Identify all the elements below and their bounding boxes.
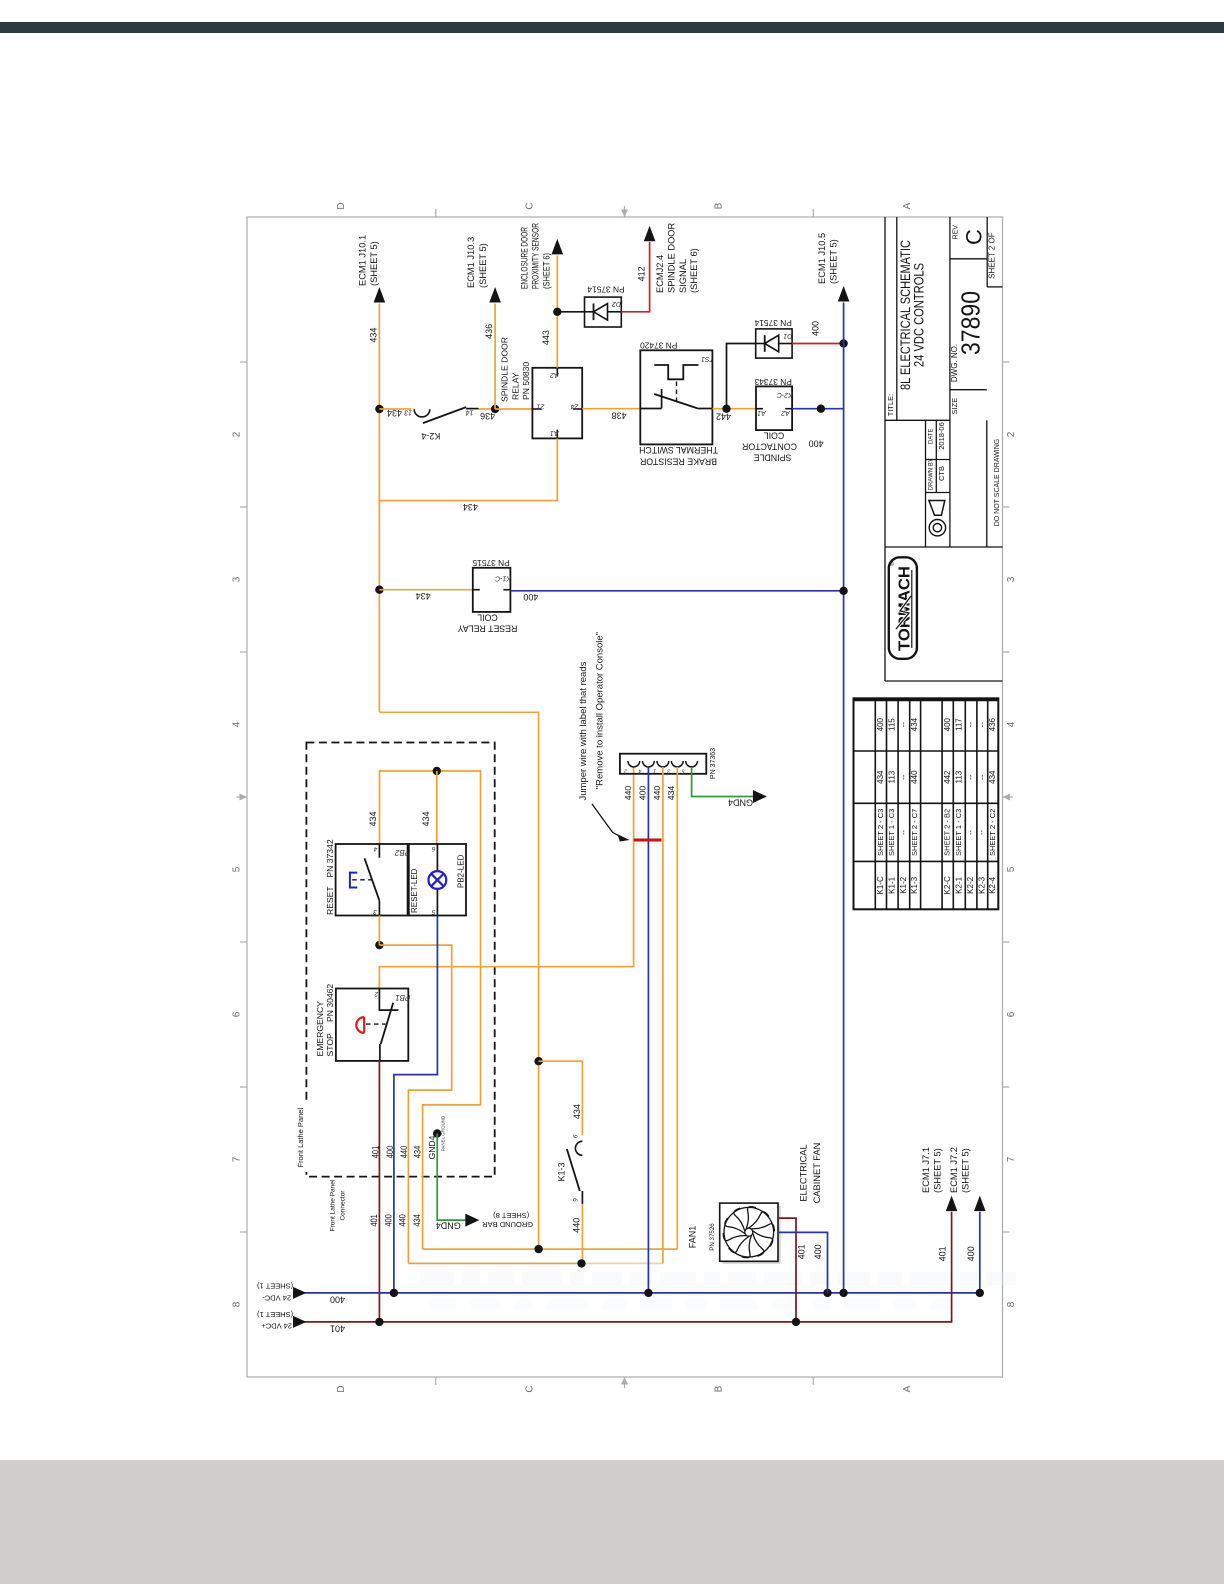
svg-text:400: 400: [638, 786, 648, 801]
off-sheet arrow ECM1 J10.1: [374, 287, 386, 303]
svg-text:(SHEET 5): (SHEET 5): [478, 243, 488, 288]
title block border: [885, 217, 1003, 681]
svg-text:C: C: [525, 202, 536, 209]
svg-text:400: 400: [943, 717, 952, 731]
svg-text:SHEET 2 - C2: SHEET 2 - C2: [988, 809, 997, 856]
node junction 440 reset pin3: [375, 941, 383, 949]
jumper wire red: [634, 839, 662, 842]
svg-text:4: 4: [638, 768, 641, 774]
svg-text:115: 115: [887, 718, 896, 731]
svg-text:SHEET 1 - C3: SHEET 1 - C3: [954, 809, 963, 856]
svg-text:K2-4: K2-4: [988, 876, 997, 893]
svg-text:(SHEET 8): (SHEET 8): [493, 1211, 530, 1220]
wire 436 to relay pin 21: [495, 408, 532, 410]
svg-text:--: --: [899, 829, 908, 834]
svg-text:440: 440: [398, 1214, 408, 1227]
svg-text:434: 434: [572, 1104, 582, 1119]
svg-text:SPINDLE: SPINDLE: [754, 452, 792, 462]
svg-text:440: 440: [572, 1218, 582, 1233]
svg-text:TORMACH: TORMACH: [897, 566, 914, 651]
svg-text:434: 434: [988, 770, 997, 784]
node junction 401 fan: [792, 1318, 800, 1326]
node junction 400/D1: [839, 339, 847, 347]
svg-text:SHEET 1 - C3: SHEET 1 - C3: [887, 809, 896, 856]
svg-text:ECM1 J10.3: ECM1 J10.3: [466, 237, 476, 288]
frame center marks: [624, 206, 626, 217]
svg-text:436: 436: [480, 411, 495, 421]
svg-text:Jumper wire with label that re: Jumper wire with label that reads: [578, 661, 589, 800]
svg-text:434: 434: [910, 717, 919, 731]
svg-text:SHEET 2 - C7: SHEET 2 - C7: [910, 809, 919, 856]
svg-text:C: C: [525, 1385, 536, 1392]
wire 443 vertical: [556, 256, 558, 368]
projection symbol: [929, 501, 945, 516]
svg-text:D2: D2: [612, 300, 621, 307]
jumper callout leader: [592, 804, 624, 838]
svg-text:A: A: [902, 202, 913, 209]
svg-text:37890: 37890: [955, 291, 985, 355]
svg-text:--: --: [966, 829, 975, 834]
svg-text:(SHEET 1): (SHEET 1): [257, 1282, 294, 1291]
TS1 switch blade: [654, 394, 697, 408]
wire 401 fan: [778, 1218, 796, 1322]
node junction 443/D2: [553, 308, 561, 316]
svg-text:440: 440: [623, 786, 633, 801]
svg-text:"Remove to install Operator Co: "Remove to install Operator Console": [595, 632, 606, 789]
svg-text:DATE: DATE: [929, 429, 935, 445]
svg-text:ELECTRICAL: ELECTRICAL: [799, 1144, 809, 1201]
svg-text:PB2-LED: PB2-LED: [457, 854, 466, 888]
pushbutton EMERGENCY STOP PB1 box: [336, 989, 408, 1061]
svg-text:436: 436: [988, 717, 997, 731]
svg-text:401: 401: [938, 1246, 948, 1261]
svg-text:1: 1: [653, 768, 656, 774]
node junction 400 horizontal: [817, 405, 825, 413]
svg-text:--: --: [977, 722, 986, 728]
svg-text:D: D: [336, 1385, 347, 1392]
svg-text:434: 434: [416, 591, 431, 601]
svg-text:434: 434: [463, 502, 478, 512]
svg-text:6: 6: [232, 1011, 243, 1017]
wire 434 to K1-3: [539, 1061, 583, 1135]
svg-text:SPINDLE DOOR: SPINDLE DOOR: [500, 337, 510, 402]
off-sheet arrow ECM1 J7.1: [946, 1196, 958, 1212]
svg-text:3: 3: [666, 768, 670, 774]
svg-text:K1-C: K1-C: [876, 876, 885, 894]
svg-text:400: 400: [809, 439, 824, 449]
diode D1 box: [756, 329, 792, 358]
svg-text:412: 412: [636, 266, 646, 281]
svg-text:ECMJ2.4: ECMJ2.4: [655, 255, 665, 293]
svg-text:K2-3: K2-3: [977, 876, 986, 893]
svg-text:CABINET FAN: CABINET FAN: [812, 1143, 822, 1204]
wire 434 into panel: [380, 771, 481, 1249]
svg-text:434: 434: [369, 328, 379, 343]
svg-text:--: --: [899, 722, 908, 728]
reset actuator symbol: [350, 873, 357, 888]
svg-text:9: 9: [573, 1198, 580, 1202]
TS1 heater element: [654, 365, 698, 379]
wire GND4 panel green: [437, 1134, 466, 1221]
svg-text:434: 434: [876, 770, 885, 784]
svg-text:21: 21: [537, 402, 546, 409]
svg-text:CTB: CTB: [937, 466, 946, 481]
contact K2-4: [414, 409, 430, 417]
svg-text:400: 400: [813, 1244, 823, 1259]
wire A1 to 434: [379, 438, 557, 500]
svg-text:401: 401: [371, 1146, 381, 1159]
svg-text:Front Lathe Panel: Front Lathe Panel: [329, 1179, 336, 1231]
svg-text:ECM1 J10.1: ECM1 J10.1: [357, 235, 367, 286]
svg-text:6: 6: [573, 1134, 580, 1138]
svg-text:A1: A1: [757, 409, 767, 416]
svg-text:EMERGENCY: EMERGENCY: [315, 1001, 325, 1057]
panel ground node GND4: [433, 1129, 441, 1137]
wire 440 pale segment: [582, 1262, 663, 1264]
svg-text:PN 37342: PN 37342: [325, 839, 335, 877]
node junction 436: [491, 405, 499, 413]
svg-text:(SHEET 5): (SHEET 5): [961, 1148, 971, 1193]
relay K2 spindle door relay box: [532, 368, 582, 439]
contact K1-3: [575, 1141, 582, 1155]
svg-text:COIL: COIL: [477, 613, 498, 623]
svg-text:PN 37526: PN 37526: [709, 1223, 716, 1251]
wire 400 reset relay to bus: [510, 590, 843, 592]
svg-text:PN 37420: PN 37420: [640, 341, 678, 351]
off-sheet arrow 24VDC+ (points right): [293, 1316, 306, 1328]
svg-text:(SHEET 6): (SHEET 6): [689, 248, 699, 293]
svg-text:3: 3: [1006, 576, 1017, 582]
svg-text:K2-2: K2-2: [966, 876, 975, 893]
svg-text:2: 2: [624, 768, 628, 774]
thermal switch TS1 box: [640, 350, 712, 444]
svg-text:440: 440: [652, 786, 662, 801]
svg-text:400: 400: [384, 1214, 394, 1227]
wire K1-3 down: [581, 1204, 583, 1264]
svg-text:--: --: [899, 774, 908, 780]
svg-text:RESET-LED: RESET-LED: [410, 868, 419, 913]
svg-text:434: 434: [666, 786, 676, 801]
svg-text:7: 7: [232, 1156, 243, 1162]
frame zone ticks: [435, 209, 437, 217]
estop mushroom symbol: [363, 1017, 365, 1033]
svg-text:(SHEET 1): (SHEET 1): [257, 1310, 294, 1319]
svg-text:24: 24: [571, 402, 580, 409]
svg-text:443: 443: [541, 330, 551, 345]
svg-text:PB1: PB1: [395, 993, 410, 1002]
svg-text:400: 400: [330, 1294, 345, 1304]
svg-text:5: 5: [1006, 866, 1017, 872]
svg-text:3: 3: [232, 576, 243, 582]
svg-text:D1: D1: [783, 332, 792, 339]
svg-text:2018-06: 2018-06: [937, 422, 946, 450]
svg-text:(SHEET 5): (SHEET 5): [933, 1148, 943, 1193]
svg-text:Front Lathe Panel: Front Lathe Panel: [296, 1108, 305, 1168]
wire 400 coil A2 to bus: [792, 408, 844, 410]
svg-text:K1-3: K1-3: [910, 876, 919, 893]
svg-text:A: A: [902, 1385, 913, 1392]
svg-text:DRAWN BY: DRAWN BY: [929, 458, 935, 490]
drawing border frame: [247, 217, 1003, 1377]
svg-text:434: 434: [421, 811, 431, 826]
svg-text:PN 50830: PN 50830: [521, 362, 531, 400]
svg-text:434: 434: [387, 408, 402, 418]
svg-text:117: 117: [954, 718, 963, 731]
svg-text:(SHEET 5): (SHEET 5): [369, 241, 379, 286]
wire 400 fan: [778, 1232, 828, 1293]
svg-text:PN 30462: PN 30462: [325, 984, 335, 1022]
svg-text:SHEET 2 - C3: SHEET 2 - C3: [876, 809, 885, 856]
svg-text:K1-3: K1-3: [557, 1162, 567, 1181]
reset relay coil K1 box: [473, 568, 511, 612]
svg-text:K1-1: K1-1: [887, 876, 896, 893]
off-sheet arrow ECMJ2.4 spindle door signal: [644, 226, 656, 242]
svg-text:400: 400: [385, 1146, 395, 1159]
svg-text:(SHEET 6): (SHEET 6): [541, 253, 551, 289]
svg-text:5: 5: [232, 866, 243, 872]
svg-text:RELAY: RELAY: [510, 372, 520, 400]
svg-text:5: 5: [431, 908, 435, 915]
front lathe panel dashed enclosure: [306, 743, 494, 1177]
svg-text:401: 401: [369, 1214, 379, 1227]
svg-text:C: C: [961, 229, 986, 245]
faint watermark strip: [420, 1272, 1016, 1285]
svg-text:3: 3: [373, 908, 377, 915]
wire 442 TS1 to contactor coil: [712, 408, 756, 410]
svg-text:24 VDC-: 24 VDC-: [262, 1294, 291, 1303]
svg-text:SHEET 2 OF: SHEET 2 OF: [988, 232, 997, 279]
wire 401 rail maroon: [296, 1212, 952, 1322]
wire 400 LED pin5 down: [394, 916, 438, 1293]
svg-text:PN 37515: PN 37515: [472, 558, 510, 568]
svg-text:THERMAL SWITCH: THERMAL SWITCH: [639, 445, 718, 455]
svg-text:DO NOT SCALE DRAWING: DO NOT SCALE DRAWING: [994, 439, 1001, 527]
svg-text:--: --: [966, 774, 975, 780]
wire 440 connector pin3: [662, 767, 664, 1264]
svg-text:14: 14: [466, 409, 474, 416]
svg-text:2: 2: [1006, 431, 1017, 437]
svg-text:440: 440: [910, 770, 919, 784]
off-sheet arrow ECM1 J10.5: [838, 286, 850, 302]
node junction 434 K1-3: [534, 1057, 542, 1065]
wire 412 red: [621, 242, 649, 312]
svg-text:6: 6: [1006, 1011, 1017, 1017]
svg-text:(SHEET 5): (SHEET 5): [829, 239, 839, 284]
svg-text:2: 2: [232, 431, 243, 437]
svg-text:5: 5: [681, 768, 685, 774]
svg-text:PN 37514: PN 37514: [754, 318, 792, 328]
wire 440 jog: [379, 945, 451, 1263]
svg-text:440: 440: [399, 1146, 409, 1159]
wire 400 connector pin2: [647, 767, 649, 1293]
svg-text:RESET: RESET: [325, 886, 335, 915]
indicator RESET-LED box: [409, 844, 466, 916]
svg-text:24 VDC CONTROLS: 24 VDC CONTROLS: [912, 263, 927, 367]
svg-text:400: 400: [523, 592, 538, 602]
svg-text:SIZE: SIZE: [950, 398, 959, 415]
node junction 434/K2-4: [375, 405, 383, 413]
wire reset pin3 down: [378, 916, 380, 946]
off-sheet arrow enclosure door proximity sensor: [552, 239, 564, 255]
node junction 434 bottom: [534, 1245, 542, 1253]
svg-text:ECM1 J7.1: ECM1 J7.1: [921, 1147, 931, 1193]
svg-text:A2: A2: [781, 409, 791, 416]
svg-text:438: 438: [612, 411, 627, 421]
svg-text:D: D: [336, 202, 347, 209]
connector PN 37363 box: [620, 754, 706, 774]
svg-text:K2-4: K2-4: [421, 431, 440, 441]
svg-text:RESET RELAY: RESET RELAY: [457, 624, 517, 634]
svg-text:400: 400: [966, 1246, 976, 1261]
svg-text:442: 442: [716, 412, 731, 422]
svg-text:PB2: PB2: [394, 848, 410, 857]
svg-text:BRAKE RESISTOR: BRAKE RESISTOR: [640, 457, 717, 467]
wire 434 to reset relay: [379, 589, 472, 591]
wire 400 bus vertical: [843, 303, 845, 1293]
svg-text:®: ®: [889, 561, 896, 566]
ground arrow GND4 connector: [753, 790, 767, 803]
fan FAN1 box: [723, 1206, 781, 1264]
wire 436 vertical: [494, 304, 496, 410]
svg-text:PN 37514: PN 37514: [587, 285, 625, 295]
node junction 401 estop: [375, 1318, 383, 1326]
svg-text:GND4: GND4: [728, 798, 753, 808]
svg-text:B: B: [714, 1385, 725, 1392]
wire 400 rail blue: [296, 1212, 980, 1293]
svg-text:A1: A1: [550, 429, 560, 436]
svg-text:PANEL GROUND: PANEL GROUND: [441, 1115, 446, 1151]
svg-text:TITLE:: TITLE:: [886, 394, 895, 417]
TORMACH logo: [889, 557, 917, 659]
svg-text:113: 113: [954, 770, 963, 783]
svg-text:442: 442: [943, 770, 952, 784]
svg-text:--: --: [977, 829, 986, 834]
svg-text:2: 2: [374, 990, 379, 997]
svg-text:K2-C: K2-C: [943, 876, 952, 894]
svg-text:STOP: STOP: [325, 1033, 335, 1057]
svg-text:GROUND BAR: GROUND BAR: [482, 1220, 533, 1229]
relay contact cross reference table: [854, 698, 999, 909]
svg-text:401: 401: [330, 1324, 345, 1334]
svg-text:B: B: [714, 202, 725, 209]
svg-text:434: 434: [412, 1214, 422, 1227]
fan impeller symbol: [720, 1204, 777, 1261]
svg-text:GND4: GND4: [436, 1220, 461, 1230]
diode D2 box: [585, 297, 622, 327]
svg-text:COIL: COIL: [764, 431, 785, 441]
wire 401 estop down to rail: [378, 1061, 380, 1322]
off-sheet arrow ECM1 J10.3: [489, 287, 501, 303]
svg-text:SPINDLE DOOR: SPINDLE DOOR: [666, 222, 676, 293]
wire 440 bottom horizontal: [408, 1262, 581, 1264]
svg-text:ECM1 J7.2: ECM1 J7.2: [949, 1147, 959, 1193]
svg-text:401: 401: [797, 1244, 807, 1259]
svg-text:TS1: TS1: [701, 355, 714, 362]
svg-text:A2: A2: [550, 371, 560, 378]
svg-text:ECM1 J10.5: ECM1 J10.5: [817, 233, 827, 284]
contactor coil K2 box: [756, 386, 792, 430]
svg-text:7: 7: [1006, 1156, 1017, 1162]
svg-text:436: 436: [484, 324, 494, 339]
svg-text:K1-2: K1-2: [899, 876, 908, 893]
svg-text:400: 400: [876, 717, 885, 731]
svg-text:REV: REV: [953, 225, 960, 240]
node junction 440 K1-3 bottom: [577, 1259, 585, 1267]
wire to diode D1: [727, 344, 756, 409]
wire 436 to junction: [479, 408, 496, 410]
svg-text:ENCLOSURE DOOR: ENCLOSURE DOOR: [519, 227, 529, 289]
wire to diode D2: [557, 311, 584, 313]
node junction 434 reset relay: [375, 586, 383, 594]
label Front Lathe Panel background: [294, 1102, 309, 1172]
pushbutton RESET PB2 box: [336, 844, 408, 916]
wire K2-4 pin13 segment: [379, 408, 411, 410]
wire 434 to LED pin6: [436, 771, 438, 844]
svg-text:FAN1: FAN1: [688, 1226, 698, 1249]
top dark bar: [0, 22, 1224, 33]
svg-text:PN 37343: PN 37343: [754, 377, 792, 387]
ground arrow GND4 panel: [465, 1214, 479, 1227]
svg-text:--: --: [977, 774, 986, 780]
svg-text:SHEET 2 - B2: SHEET 2 - B2: [943, 809, 952, 856]
svg-text:6: 6: [431, 845, 435, 852]
node junction 400 reset: [839, 587, 847, 595]
node junction 434 LED branch: [433, 767, 441, 775]
svg-text:Connector: Connector: [340, 1190, 347, 1221]
svg-text:8: 8: [1006, 1301, 1017, 1307]
lamp PB2-LED symbol: [429, 871, 447, 889]
wire 434 main vertical: [378, 304, 380, 713]
connector pins: [628, 761, 640, 767]
svg-text:PN 37363: PN 37363: [710, 748, 717, 779]
svg-text:434: 434: [368, 811, 378, 826]
svg-text:SIGNAL: SIGNAL: [678, 259, 688, 293]
svg-text:400: 400: [811, 321, 821, 336]
wire 440 estop to connector: [379, 767, 633, 988]
svg-text:K2-1: K2-1: [954, 876, 963, 893]
wire 438 relay pin24 to TS1: [582, 408, 640, 410]
svg-text:4: 4: [1006, 721, 1017, 727]
wire D1 red to 400 bus: [792, 343, 844, 345]
svg-text:CONTACTOR: CONTACTOR: [742, 442, 797, 452]
svg-text:4: 4: [232, 721, 243, 727]
svg-text:K1-C: K1-C: [494, 574, 511, 581]
svg-text:434: 434: [413, 1146, 423, 1159]
svg-text:24 VDC+: 24 VDC+: [261, 1322, 292, 1331]
wire 434 bottom horizontal: [423, 1248, 678, 1250]
node junctions on 400 rail: [390, 1289, 398, 1297]
node junction 442/D1: [722, 405, 730, 413]
off-sheet arrow ECM1 J7.2: [974, 1196, 986, 1212]
bottom gray bar: [0, 1460, 1224, 1584]
svg-text:4: 4: [373, 845, 377, 852]
svg-text:PROXIMITY SENSOR: PROXIMITY SENSOR: [530, 223, 540, 289]
svg-text:13: 13: [404, 409, 412, 416]
svg-text:113: 113: [887, 770, 896, 783]
wire 434 connector pin4: [676, 767, 678, 1249]
svg-text:8: 8: [232, 1301, 243, 1307]
wire 434 jog right: [379, 712, 538, 1249]
svg-text:--: --: [966, 722, 975, 728]
svg-text:K2-C: K2-C: [776, 391, 793, 398]
TS1 actuation dashed link: [676, 382, 678, 402]
off-sheet arrow 24VDC- (points right): [293, 1287, 306, 1299]
wire GND4 connector green: [692, 767, 753, 797]
svg-text:GND4: GND4: [427, 1135, 437, 1159]
